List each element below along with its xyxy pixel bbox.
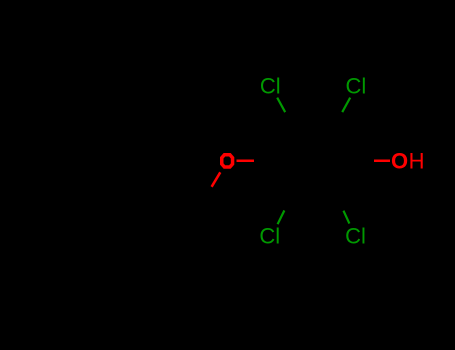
wire: Cl bond top-right green half — [342, 98, 350, 113]
wire: C1-O bond black half — [202, 188, 211, 204]
svg-text:Cl: Cl — [259, 224, 280, 249]
wire: Cl bond top-left black half — [285, 112, 290, 120]
atom O (ether oxygen) — [222, 155, 233, 167]
svg-text:H: H — [409, 149, 425, 174]
hexyl chain skeleton (black on black) — [31, 179, 203, 204]
wire: ring-OH bond red half — [374, 160, 390, 163]
wire: O-ring bond red half (ether O to ring left vertex) — [237, 160, 255, 163]
wire: Cl bond bottom-right black half — [337, 202, 343, 210]
svg-text:Cl: Cl — [345, 223, 366, 248]
wire: Cl bond top-right black half — [337, 112, 342, 120]
svg-text:Cl: Cl — [346, 74, 367, 99]
wire: Cl bond top-left green half — [277, 98, 285, 113]
wire: Cl bond bottom-left black half — [284, 202, 289, 210]
svg-text:O: O — [391, 149, 408, 174]
svg-text:Cl: Cl — [260, 74, 281, 99]
wire: Cl bond bottom-right green half — [343, 211, 349, 224]
wire: O-ring bond black half — [254, 160, 266, 162]
wire: Cl bond bottom-left green half — [278, 210, 285, 224]
wire: O-CH2 bond red half — [212, 172, 221, 187]
wire: ring-OH bond black half — [361, 160, 375, 162]
benzene ring (carbon skeleton, black on black) — [266, 120, 361, 202]
